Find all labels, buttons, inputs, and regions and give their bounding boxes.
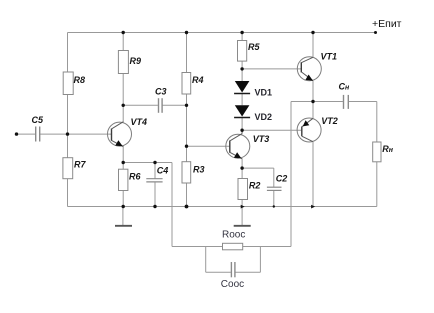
wire top supply rail xyxy=(68,32,376,34)
wire R4/R3 column xyxy=(186,33,188,207)
node output VT1 VT2 xyxy=(311,100,314,103)
capacitor Cн output xyxy=(339,82,351,109)
transistor VT4 xyxy=(108,117,148,147)
wire C2 branch xyxy=(242,168,274,206)
wire VT1 collector xyxy=(312,33,314,58)
node R3 rail xyxy=(185,205,189,209)
wire feedback line Rоос xyxy=(172,246,291,248)
svg-text:R7: R7 xyxy=(74,160,86,170)
node R5 VT1 base xyxy=(240,67,243,70)
svg-text:R9: R9 xyxy=(130,56,142,66)
node VT4 emitter wire xyxy=(122,161,125,164)
node VT4 collector C3 xyxy=(122,104,125,107)
diode VD2 xyxy=(234,105,272,122)
transistor VT3 xyxy=(226,130,270,159)
resistor R4 xyxy=(182,73,204,95)
resistor R3 xyxy=(182,162,205,183)
resistor R5 xyxy=(238,41,261,62)
node R6 rail xyxy=(122,205,125,208)
wire Rн column xyxy=(376,102,378,207)
svg-text:R3: R3 xyxy=(193,165,205,175)
node C3 R4 xyxy=(185,104,188,107)
wire C4 stems xyxy=(154,163,156,207)
wire Cоос branch xyxy=(206,247,261,273)
svg-text:VT1: VT1 xyxy=(321,52,338,62)
resistor R9 xyxy=(118,51,141,74)
node input terminal xyxy=(15,132,18,135)
resistor R8 xyxy=(63,72,85,95)
node R9 top rail xyxy=(122,31,125,34)
wire VT2 collector to rail xyxy=(312,142,314,207)
svg-text:C5: C5 xyxy=(32,115,44,125)
svg-text:R4: R4 xyxy=(192,75,204,85)
transistor VT2 pnp xyxy=(297,116,338,142)
ground under R2 xyxy=(234,207,251,226)
svg-text:VD2: VD2 xyxy=(255,112,273,122)
capacitor Cоос feedback xyxy=(221,262,244,290)
capacitor C5 xyxy=(32,115,44,142)
svg-text:+Епит: +Епит xyxy=(372,18,402,30)
svg-text:C3: C3 xyxy=(155,86,167,96)
wire VT4 emitter node to C4 xyxy=(123,162,172,164)
node VT3 base R3 xyxy=(185,145,188,148)
wire input line xyxy=(17,133,112,135)
svg-text:VD1: VD1 xyxy=(255,88,273,98)
resistor Rоос feedback xyxy=(222,230,245,250)
svg-text:VT2: VT2 xyxy=(321,116,338,126)
wire C3 link xyxy=(123,104,186,106)
wire VT3 base xyxy=(187,145,230,147)
node C4 top xyxy=(153,161,156,164)
svg-text:R8: R8 xyxy=(74,75,86,85)
resistor R2 xyxy=(238,179,260,200)
wire VT1 base xyxy=(242,68,301,70)
capacitor C4 xyxy=(146,166,168,182)
wire VT3 emitter to R2 xyxy=(241,158,243,206)
wire R5 / diode column xyxy=(241,33,243,131)
wire VT1 emitter to output node xyxy=(312,81,314,102)
node VT3 collector VT2 base xyxy=(240,129,243,132)
capacitor C2 xyxy=(267,173,287,190)
ground under R6 xyxy=(115,207,132,226)
node input junction R8 R7 xyxy=(66,132,69,135)
svg-text:Rоос: Rоос xyxy=(222,230,245,241)
node R4 top rail xyxy=(185,31,188,34)
svg-text:R5: R5 xyxy=(248,42,260,52)
node VT3 emitter C2 xyxy=(240,166,243,169)
svg-text:R2: R2 xyxy=(249,181,261,191)
wire bottom ground rail xyxy=(68,206,377,208)
node rail end terminal xyxy=(374,31,377,34)
node C4 rail xyxy=(153,205,156,208)
wire R9 / VT4 collector column xyxy=(122,33,124,122)
capacitor C3 xyxy=(155,86,167,113)
svg-text:C2: C2 xyxy=(276,173,288,183)
svg-text:VT4: VT4 xyxy=(131,117,148,127)
node C2 rail xyxy=(273,205,275,207)
diode VD1 xyxy=(234,81,272,98)
wire VT2 emitter xyxy=(312,102,314,119)
resistor R6 xyxy=(119,169,142,190)
wire VT2 base xyxy=(242,129,301,131)
node VT1 collector rail xyxy=(311,31,314,34)
wire output node to Cн xyxy=(291,101,377,103)
wire left column R8/R7 xyxy=(67,33,69,207)
svg-text:Cоос: Cоос xyxy=(221,279,244,290)
svg-text:C4: C4 xyxy=(157,166,169,176)
svg-text:VT3: VT3 xyxy=(253,134,270,144)
resistor Rн load xyxy=(373,142,394,162)
transistor VT1 xyxy=(297,52,337,81)
resistor R7 xyxy=(63,158,87,179)
node R2 ground rail arrow xyxy=(241,205,245,209)
wire feedback right drop xyxy=(290,102,292,247)
wire feedback left drop xyxy=(171,163,173,247)
node R5 top rail xyxy=(240,31,243,34)
wire VT4 emitter / R6 column xyxy=(122,147,124,207)
svg-text:R6: R6 xyxy=(129,172,141,182)
node VT2 collector rail arrow xyxy=(311,205,315,209)
